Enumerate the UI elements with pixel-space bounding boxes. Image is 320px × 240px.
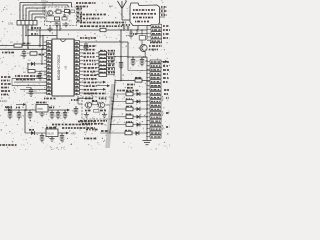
wire U1 out row 3 bbox=[96, 88, 106, 91]
transistor Q3 bbox=[86, 102, 92, 108]
resistor R11 row bbox=[96, 54, 116, 58]
IC U1 microcontroller body bbox=[52, 39, 74, 96]
node labels below CN1 bbox=[31, 28, 41, 34]
legend note line 6 bbox=[80, 25, 122, 27]
resistor R19 bbox=[30, 52, 44, 55]
U3 pin stubs bbox=[160, 7, 168, 17]
wire vertical x42 bbox=[41, 49, 43, 65]
resistor R3 osc bbox=[55, 17, 68, 25]
capacitor C20 on bus bbox=[122, 25, 130, 31]
legend note line 4 bbox=[80, 18, 99, 20]
diode D8 bbox=[25, 130, 46, 135]
capacitor C21 bbox=[119, 57, 124, 69]
capacitor C7 bbox=[131, 57, 140, 66]
legend note line 3 bbox=[80, 14, 106, 16]
capacitor C22 bbox=[128, 29, 133, 38]
transistor Q2 bbox=[139, 44, 163, 52]
wire U1 bottom branches bbox=[77, 96, 92, 104]
ground Q3 bbox=[84, 113, 89, 118]
legend note line 1 bbox=[76, 2, 96, 4]
wire branch down bbox=[27, 63, 29, 71]
resistor R15 row bbox=[96, 69, 115, 73]
fan row label bbox=[117, 90, 139, 92]
wire U1 out row 1 bbox=[96, 81, 106, 84]
wire bus net A bbox=[28, 29, 147, 31]
ground J1 bbox=[143, 141, 152, 145]
capacitor C12 bbox=[16, 108, 21, 119]
wire net row57 right bbox=[128, 56, 147, 58]
audio row label bbox=[84, 93, 106, 95]
diode D1 bbox=[28, 60, 47, 66]
diode D9 rail bbox=[5, 107, 12, 112]
crystal X1 bbox=[54, 8, 63, 13]
wire left pin rows bbox=[11, 78, 13, 85]
wire U1 right pin stubs bbox=[80, 46, 84, 93]
diode D6 resistor R16 fan row 5 bbox=[110, 122, 148, 126]
wire +12V branch bbox=[24, 110, 26, 133]
wire J1 bus bbox=[146, 57, 150, 141]
regulator U5 78L09 bbox=[46, 128, 58, 137]
resistor R17 bbox=[94, 110, 100, 113]
wire bus B drop bbox=[136, 29, 147, 33]
connector J1 pin stack bbox=[150, 60, 161, 138]
legend note line 2 bbox=[76, 6, 88, 8]
diode D3 resistor R13 fan row 2 bbox=[112, 99, 147, 103]
wire CN1 down legs bbox=[22, 25, 33, 49]
diode D2 resistor R12 fan row 1 bbox=[113, 92, 148, 96]
svg-text:MC68HC705C8: MC68HC705C8 bbox=[57, 55, 61, 80]
osc output pins right side bbox=[77, 9, 83, 23]
capacitor C8 bbox=[140, 57, 149, 66]
wire U1 left lower pins bbox=[12, 78, 47, 93]
capacitor label C9 bbox=[127, 85, 135, 88]
J1 right labels bbox=[163, 62, 169, 94]
wire bus net B bbox=[28, 35, 57, 37]
capacitor C14 bbox=[49, 108, 54, 119]
audio filter dashed enclosure bbox=[82, 97, 112, 119]
ground Q4 bbox=[102, 113, 107, 118]
capacitor C11 bbox=[6, 108, 12, 119]
wire fan top feed bbox=[115, 80, 150, 82]
resistor R16 row bbox=[96, 73, 115, 77]
resistor R10 row bbox=[96, 51, 115, 55]
wire +12V rail bbox=[4, 109, 68, 111]
ground osc module bbox=[47, 26, 52, 32]
capacitor C15 bbox=[56, 110, 61, 119]
oscillator module dashed enclosure bbox=[45, 7, 77, 26]
diode D4 resistor R14 fan row 3 bbox=[112, 107, 148, 111]
transistor Q1 oscillator bbox=[47, 10, 52, 15]
resistor R1 on RX net bbox=[10, 42, 31, 47]
+9V wire label bbox=[84, 130, 98, 139]
capacitor C4 bbox=[38, 71, 47, 80]
resistor R8 bbox=[135, 78, 142, 82]
R7 value label bbox=[150, 42, 162, 44]
resistor R4 bbox=[23, 70, 47, 74]
wire antenna to U3 bbox=[122, 19, 130, 21]
svg-text:+9V: +9V bbox=[71, 132, 76, 136]
audio module label bbox=[44, 98, 56, 100]
wire vertical links bbox=[39, 29, 44, 49]
resistor R13 row bbox=[96, 62, 115, 66]
capacitor C16 bbox=[63, 110, 68, 119]
left margin labels bbox=[1, 77, 11, 95]
wire vertical x121 bbox=[120, 29, 122, 81]
wire audio internal bbox=[84, 99, 110, 111]
resistor R14 row bbox=[96, 65, 115, 69]
ground U4 bbox=[39, 112, 44, 117]
wire +9V feed row bbox=[100, 131, 148, 135]
capacitor C18 bbox=[60, 133, 65, 142]
audio module notes below bbox=[80, 121, 107, 124]
capacitor C10 bbox=[71, 100, 80, 115]
capacitor C2 osc bbox=[63, 14, 69, 18]
note above bbox=[78, 121, 96, 123]
U1 right pin net labels bbox=[84, 46, 97, 93]
wire Q2 emitter bbox=[144, 51, 146, 58]
wire row57 extension bbox=[115, 56, 128, 58]
wire fan vertical bus bbox=[110, 81, 115, 134]
legend note line 5 bbox=[80, 22, 126, 24]
arrow J1 out bbox=[161, 60, 168, 63]
capacitor C13 bbox=[28, 110, 33, 119]
+12V input label bbox=[0, 99, 26, 110]
+5V output arrow bbox=[67, 109, 77, 113]
capacitor C6 vdd bbox=[80, 38, 96, 50]
svg-text:+12V: +12V bbox=[0, 99, 7, 103]
connector J2 pin stack bbox=[147, 24, 162, 42]
wire +9V out bbox=[58, 132, 76, 136]
U1 left pin number boxes bbox=[47, 41, 52, 95]
svg-text:CN1: CN1 bbox=[8, 22, 14, 26]
wire feedback loop bbox=[80, 42, 129, 58]
capacitor C3 osc bbox=[68, 10, 71, 15]
wire net RX bbox=[0, 45, 47, 47]
svg-text:R2: R2 bbox=[65, 8, 67, 10]
capacitor C1 bbox=[22, 49, 31, 58]
wire K1 left input bbox=[128, 57, 150, 71]
resistor R7 bbox=[133, 29, 146, 44]
capacitor C5 bbox=[26, 88, 37, 97]
IC U3 receiver module bbox=[130, 3, 160, 26]
resistor R2 osc bbox=[65, 8, 75, 13]
svg-text:+5V: +5V bbox=[72, 109, 77, 113]
wire osc to bus bbox=[57, 26, 61, 40]
left wire value labels bbox=[15, 76, 41, 80]
wire U3 to bus bbox=[137, 26, 139, 31]
svg-text:7805: 7805 bbox=[37, 107, 43, 111]
bottom left note bbox=[0, 144, 17, 146]
svg-text:ANT: ANT bbox=[109, 5, 114, 8]
wire U1 out row 2 bbox=[96, 84, 110, 87]
U1 left pin stubs bbox=[44, 42, 46, 93]
J1 group labels bbox=[162, 96, 169, 131]
resistor R16 bbox=[92, 101, 98, 105]
diode D5 resistor R15 fan row 4 bbox=[111, 114, 148, 118]
power note text bbox=[50, 125, 95, 130]
regulator U4 7805 bbox=[36, 103, 48, 113]
transistor Q4 bbox=[99, 102, 105, 108]
capacitor C17 bbox=[40, 133, 45, 142]
antenna E1 bbox=[109, 1, 127, 20]
resistor R12 row bbox=[96, 58, 115, 62]
connector CN1 jumper block bbox=[8, 21, 37, 26]
wire bus from top edge to connector CN1 bbox=[20, 3, 72, 21]
net RX TX labels bbox=[2, 52, 14, 54]
resistor R5 on bus bbox=[95, 27, 106, 32]
svg-text:U1: U1 bbox=[64, 65, 68, 69]
wire net TX bbox=[0, 49, 47, 51]
wire osc internal bbox=[46, 10, 69, 27]
J2 labels bbox=[163, 26, 170, 38]
U1 right pin number boxes bbox=[75, 41, 80, 95]
ground U5 bbox=[49, 137, 54, 142]
svg-text:78L09: 78L09 bbox=[47, 133, 54, 136]
